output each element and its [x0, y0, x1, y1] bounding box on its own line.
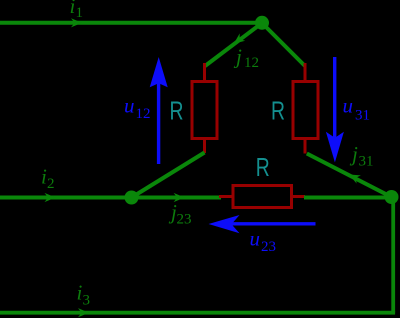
label u12	[124, 94, 151, 123]
label i1	[70, 0, 84, 21]
label i3	[77, 281, 91, 309]
svg-text:12: 12	[136, 106, 151, 122]
voltage arrow u23 line	[229, 222, 316, 225]
voltage arrow u12 head	[150, 57, 168, 87]
svg-text:2: 2	[47, 176, 55, 192]
resistor R12 top lead	[203, 63, 206, 81]
svg-text:R: R	[271, 97, 285, 125]
svg-text:1: 1	[76, 5, 84, 21]
wire middle line 2	[0, 196, 221, 200]
voltage arrow u12 line	[157, 80, 160, 164]
label u23	[250, 227, 277, 256]
label u31	[343, 94, 371, 124]
voltage arrow u23 head	[209, 215, 240, 233]
voltage arrow u31 line	[333, 57, 336, 140]
current arrow i1	[71, 18, 82, 27]
label i2	[41, 165, 55, 193]
wire node1 to R31 top	[262, 23, 305, 66]
wire R31 bottom to node 3	[307, 154, 392, 198]
current arrow i2	[45, 193, 56, 202]
svg-text:12: 12	[244, 55, 259, 71]
label j12	[233, 45, 259, 72]
branch current arrow j23	[174, 193, 185, 202]
branch current arrow j31	[347, 170, 361, 183]
wire top line 1	[0, 21, 262, 25]
svg-text:31: 31	[359, 154, 374, 170]
svg-text:u: u	[250, 227, 261, 251]
wire right vertical	[391, 197, 395, 313]
resistor R12 bottom lead	[203, 139, 206, 154]
svg-text:31: 31	[355, 108, 370, 124]
wire node1 to R12 top	[205, 23, 262, 66]
wire bottom line 3	[0, 311, 395, 315]
resistor R23 right lead	[292, 195, 306, 198]
wire R12 bottom to node 2	[132, 153, 205, 198]
label j23	[168, 200, 192, 228]
resistor R31 top lead	[304, 63, 307, 81]
resistor R12 body	[192, 82, 217, 139]
svg-text:R: R	[256, 153, 270, 181]
svg-text:u: u	[124, 94, 135, 118]
svg-text:23: 23	[261, 239, 276, 255]
resistor R23 left lead	[219, 195, 233, 198]
branch current arrow j12	[231, 33, 245, 47]
label j31	[349, 142, 374, 170]
wire R23 right to node 3	[304, 196, 392, 200]
resistor R23 body	[233, 186, 292, 208]
resistor R31 bottom lead	[304, 139, 307, 154]
svg-text:23: 23	[177, 212, 192, 228]
node 1	[255, 16, 269, 30]
resistor R31 body	[293, 82, 318, 139]
node 3	[385, 190, 399, 204]
voltage arrow u31 head	[326, 132, 344, 163]
node 2	[125, 191, 139, 205]
svg-text:3: 3	[83, 293, 91, 309]
current arrow i3	[78, 308, 89, 317]
svg-text:u: u	[343, 94, 354, 118]
svg-text:R: R	[170, 97, 184, 125]
